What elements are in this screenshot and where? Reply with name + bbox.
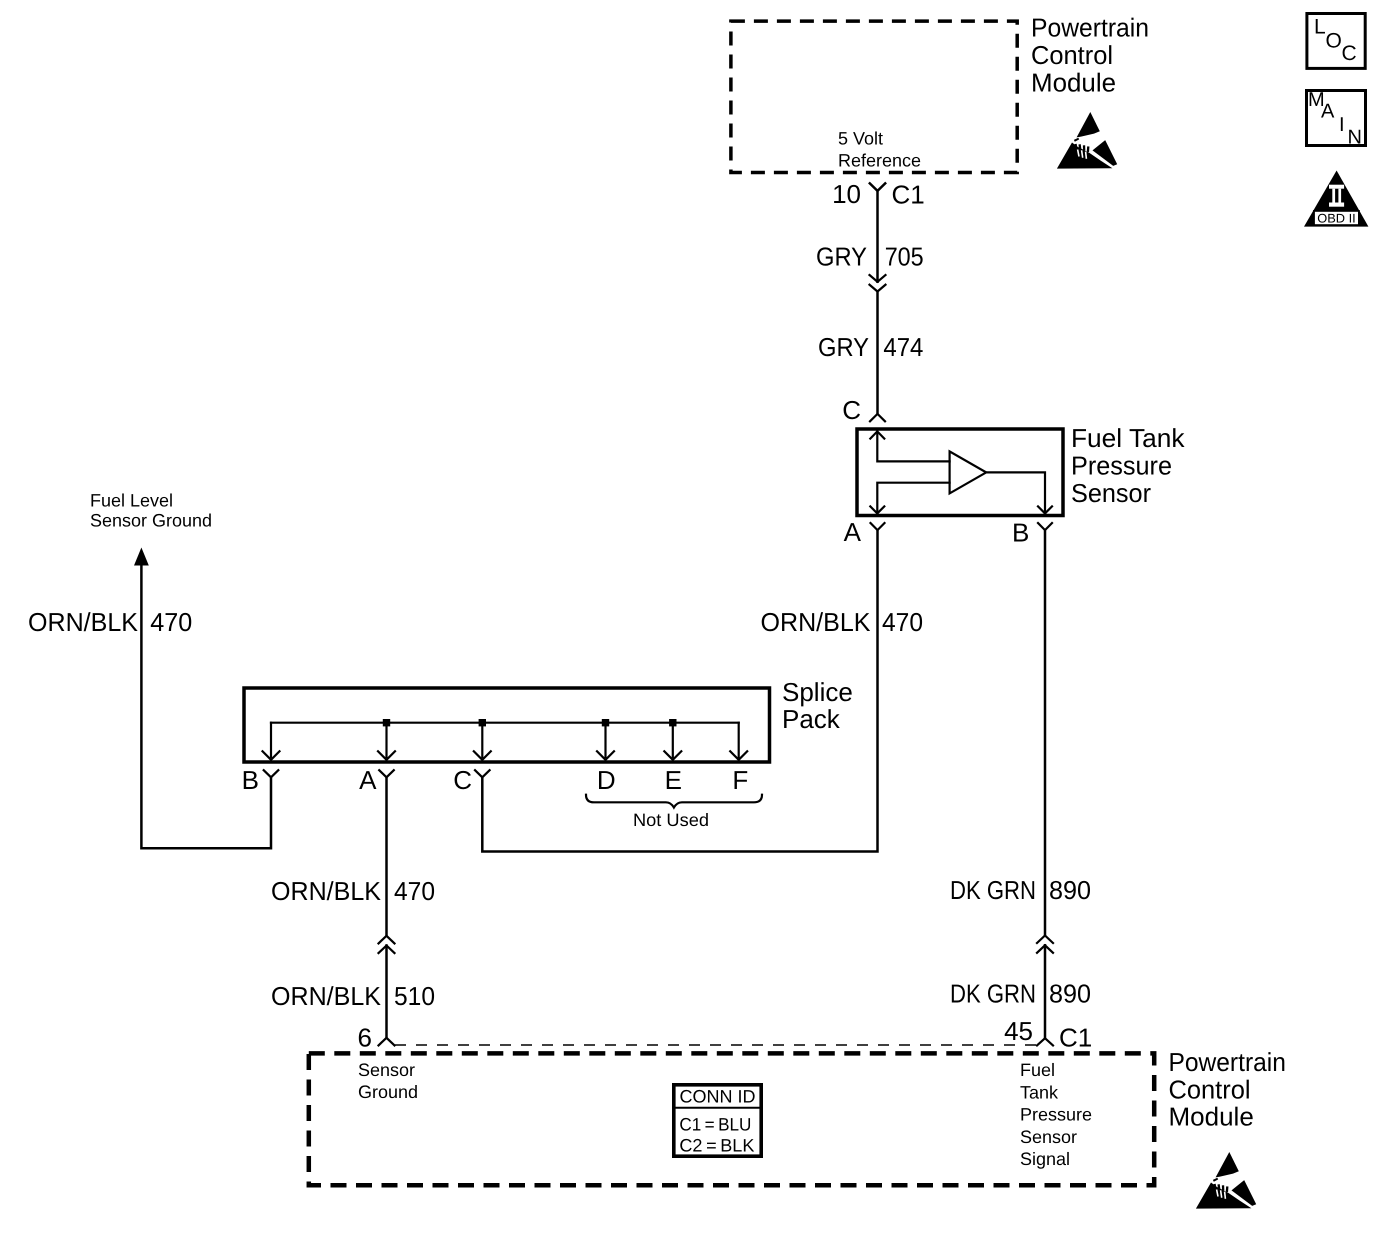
- wire ORN/BLK 510 to PCM pin 6: [385, 946, 388, 1038]
- svg-text:Sensor: Sensor: [1020, 1127, 1077, 1147]
- svg-text:C1: C1: [892, 180, 925, 210]
- splice drop F with arrow: [738, 723, 740, 757]
- svg-text:GRY: GRY: [816, 242, 867, 272]
- splice bus wire: [271, 722, 739, 724]
- wire break chevrons on ORN/BLK wire: [379, 936, 395, 944]
- svg-text:Pressure: Pressure: [1071, 451, 1172, 481]
- wire GRY 474: [876, 292, 879, 414]
- connector caret at PCM pin 6: [379, 1038, 395, 1046]
- svg-text:A: A: [359, 765, 377, 795]
- wire GRY 705: [876, 191, 879, 282]
- svg-text:890: 890: [1049, 979, 1091, 1009]
- sensor internal wire to pin A with down arrow: [877, 483, 949, 514]
- connector caret at PCM pin 45: [1037, 1038, 1053, 1045]
- sensor internal wire from pin C with up arrow: [870, 431, 884, 438]
- sensor internal output wire to pin B with down arrow: [986, 472, 1045, 513]
- svg-text:DK GRN: DK GRN: [950, 979, 1036, 1009]
- splice drop C with arrow: [481, 723, 483, 757]
- PCM (bottom) dashed box: [309, 1053, 1154, 1185]
- svg-text:Reference: Reference: [838, 151, 921, 171]
- svg-text:6: 6: [358, 1023, 372, 1053]
- svg-text:ORN/BLK: ORN/BLK: [271, 981, 382, 1011]
- ESD symbol (top PCM): [1057, 112, 1117, 169]
- connector Y at splice C: [475, 770, 490, 777]
- splice drop D with arrow: [604, 723, 606, 757]
- svg-text:E: E: [665, 765, 682, 795]
- Splice Pack box: [244, 688, 770, 762]
- MAIN box: [1307, 89, 1366, 149]
- svg-text:DK GRN: DK GRN: [950, 875, 1036, 905]
- connector Y at splice A: [379, 770, 394, 777]
- svg-text:474: 474: [883, 332, 923, 362]
- svg-text:Fuel Tank: Fuel Tank: [1071, 423, 1185, 453]
- svg-text:Ground: Ground: [358, 1082, 418, 1102]
- svg-text:N: N: [1348, 127, 1362, 149]
- connector Y at sensor pin A: [871, 523, 885, 530]
- svg-text:F: F: [732, 765, 748, 795]
- splice junction dot E: [669, 719, 676, 726]
- Fuel Tank Pressure Sensor box: [857, 429, 1063, 516]
- CONN ID table box: [673, 1085, 762, 1156]
- svg-text:Module: Module: [1169, 1102, 1254, 1132]
- not used brace under D E F: [586, 795, 762, 808]
- svg-text:A: A: [1321, 101, 1335, 123]
- svg-text:C1: C1: [1059, 1022, 1092, 1052]
- svg-text:C: C: [1342, 42, 1357, 65]
- splice junction dot C: [479, 719, 486, 726]
- svg-text:Signal: Signal: [1020, 1149, 1070, 1169]
- LOC box: [1307, 14, 1365, 69]
- svg-text:B: B: [242, 765, 259, 795]
- OBD II symbol: [1304, 171, 1368, 227]
- svg-text:45: 45: [1004, 1016, 1033, 1046]
- wire ORN/BLK 470 from sensor A down to splice C: [482, 530, 877, 851]
- svg-text:C1 = BLU: C1 = BLU: [679, 1115, 751, 1135]
- svg-text:Splice: Splice: [782, 677, 853, 707]
- PCM (top) dashed box U1: [731, 21, 1017, 172]
- svg-text:705: 705: [885, 242, 924, 272]
- svg-text:470: 470: [394, 876, 435, 906]
- svg-text:Pressure: Pressure: [1020, 1105, 1092, 1125]
- splice junction dot A: [383, 719, 390, 726]
- svg-text:C: C: [842, 395, 861, 425]
- svg-text:C2 = BLK: C2 = BLK: [679, 1135, 754, 1155]
- connector Y at PCM pin 10: [870, 183, 885, 191]
- thin dashed connector line between pin 6 and pin 45: [395, 1044, 1036, 1046]
- svg-text:ORN/BLK: ORN/BLK: [761, 607, 872, 637]
- wire break chevrons on DK GRN wire: [1037, 936, 1053, 944]
- svg-text:D: D: [597, 765, 616, 795]
- svg-text:Fuel Level: Fuel Level: [90, 491, 173, 511]
- splice junction dot D: [602, 719, 609, 726]
- svg-text:Not Used: Not Used: [633, 810, 709, 830]
- connector caret at sensor pin C: [870, 414, 885, 421]
- svg-text:I: I: [1339, 114, 1345, 136]
- svg-text:CONN ID: CONN ID: [680, 1087, 756, 1107]
- wire DK GRN 890 from sensor B: [1044, 530, 1047, 935]
- svg-text:Powertrain: Powertrain: [1031, 13, 1149, 43]
- svg-text:Module: Module: [1031, 68, 1116, 98]
- wire ORN/BLK 470 (left, to fuel level sensor ground): [141, 564, 271, 848]
- connector Y at sensor pin B: [1038, 523, 1052, 530]
- op-amp buffer triangle inside sensor: [950, 451, 987, 493]
- svg-text:L: L: [1314, 16, 1326, 39]
- svg-text:Tank: Tank: [1020, 1082, 1059, 1102]
- svg-text:Powertrain: Powertrain: [1169, 1047, 1286, 1077]
- svg-text:510: 510: [394, 981, 435, 1011]
- splice drop E with arrow: [672, 723, 674, 757]
- svg-text:OBD II: OBD II: [1317, 211, 1356, 225]
- svg-text:Pack: Pack: [782, 704, 841, 734]
- wire break chevrons on GRY wire: [870, 275, 886, 282]
- svg-text:A: A: [844, 517, 862, 547]
- wire ORN/BLK 470 from splice A down: [385, 777, 388, 936]
- svg-text:Sensor Ground: Sensor Ground: [90, 511, 212, 531]
- connector Y at splice B: [264, 770, 279, 777]
- splice drop A with arrow: [385, 723, 387, 757]
- svg-text:ORN/BLK: ORN/BLK: [271, 876, 382, 906]
- svg-text:GRY: GRY: [818, 332, 869, 362]
- svg-text:ORN/BLK: ORN/BLK: [28, 607, 139, 637]
- ESD symbol (bottom PCM): [1196, 1152, 1256, 1209]
- svg-text:O: O: [1326, 30, 1342, 53]
- splice drop B with arrow: [270, 723, 272, 757]
- svg-text:Control: Control: [1031, 40, 1113, 70]
- svg-text:C: C: [453, 765, 472, 795]
- svg-text:Sensor: Sensor: [1071, 478, 1151, 508]
- svg-text:Control: Control: [1169, 1074, 1251, 1104]
- wire DK GRN 890 (lower) to PCM pin 45: [1044, 945, 1047, 1038]
- svg-text:5 Volt: 5 Volt: [838, 129, 883, 149]
- svg-text:470: 470: [882, 607, 923, 637]
- svg-text:Sensor: Sensor: [358, 1060, 415, 1080]
- svg-text:Fuel: Fuel: [1020, 1060, 1055, 1080]
- svg-text:B: B: [1012, 518, 1029, 548]
- arrow to fuel level sensor ground: [134, 548, 149, 566]
- svg-text:470: 470: [150, 607, 192, 637]
- svg-text:10: 10: [832, 179, 861, 209]
- svg-text:890: 890: [1049, 875, 1091, 905]
